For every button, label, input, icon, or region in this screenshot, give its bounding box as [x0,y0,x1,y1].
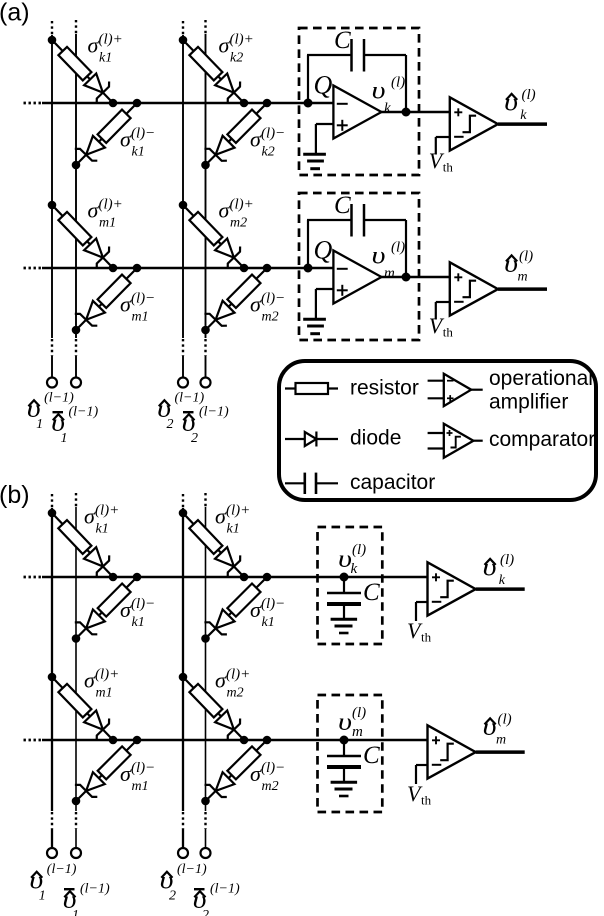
junction dot at bottom of a k1- [72,161,81,170]
wire column a col v1hat dotted bottom [51,339,53,356]
svg-text:(l)+: (l)+ [226,503,250,519]
junction dot at top of a k2- [263,99,272,108]
node Q dot a row k [304,99,313,108]
svg-text:(l)+: (l)+ [99,197,123,213]
wire a k2+ branch [183,40,244,103]
diode b k1+ g2 [215,547,240,577]
svg-text:(l)−: (l)− [131,126,155,142]
junction dot at bottom of a k1+ [109,99,118,108]
svg-text:resistor: resistor [350,377,419,400]
dashed box capacitor b row m [318,695,383,812]
capacitor C feedback a row k [352,39,365,72]
svg-text:m1: m1 [132,310,149,325]
wire op-amp + input to ground a row k [316,124,334,153]
section label (a) [0,0,30,27]
wire feedback right vertical a row m [405,220,407,277]
wire column a col v2bar dotted top [204,20,206,34]
legend label operational amplifier [489,367,593,414]
svg-text:(l)+: (l)+ [95,503,119,519]
wire feedback top right a row k [364,54,406,56]
wire a m2+ branch [183,205,244,268]
label C b row m [363,742,380,769]
junction dot at top of b m2+ [179,673,188,682]
wire column a col v1bar dotted top [75,20,77,34]
svg-text:k: k [499,573,506,588]
junction dot at bottom of b m1- [72,797,81,806]
svg-text:C: C [334,192,351,219]
junction dot at top of a k2+ [179,36,188,45]
svg-text:th: th [421,630,432,645]
svg-text:(l)−: (l)− [261,760,285,776]
svg-text:m: m [352,724,363,740]
node Q dot a row m [304,264,313,273]
junction dot at top of b m1+ [48,673,57,682]
wire column b col v1hat dotted top [51,494,53,508]
wire node to capacitor b row k [343,577,345,593]
label v_m^(l) b row m [338,705,366,740]
svg-text:(l−1): (l−1) [210,882,240,897]
label sigma_k1^- for a k1- [120,126,155,160]
resistor a m2+ [189,212,222,246]
svg-text:(l−1): (l−1) [175,391,205,406]
svg-text:th: th [421,793,432,808]
wire node to capacitor b row m [343,740,345,756]
wire b k1+ branch [52,513,113,577]
legend label diode [350,427,401,450]
diode b m2- [205,772,235,797]
resistor a k2+ [189,47,222,81]
resistor b m1+ [58,684,91,718]
wire column a col v1bar [75,34,77,338]
svg-text:diode: diode [350,427,401,450]
svg-text:(l)−: (l)− [261,596,285,612]
junction dot at top of b k1- g2 [263,573,272,582]
label C a row m [334,192,351,219]
label vhat_m^(l) output b row m [483,711,512,747]
svg-text:k2: k2 [262,145,275,160]
wire row b row m dotted left [24,739,43,742]
wire comparator output b row m [476,750,525,754]
label sigma_k2^- for a k2- [250,126,285,160]
wire column b col v1bar dotted top [75,493,77,507]
label sigma_k1^+ for b k1+ g2 [215,503,250,537]
svg-text:amplifier: amplifier [489,391,568,414]
svg-text:C: C [363,742,380,769]
svg-text:(l−1): (l−1) [80,882,110,897]
wire feedback left vertical a row k [307,55,309,103]
junction dot at top of a m2+ [179,201,188,210]
wire row a row k [42,102,333,105]
svg-text:m2: m2 [230,216,247,231]
op-amp U a row m [333,251,381,304]
wire column a col v1bar stub [75,356,77,378]
svg-text:k2: k2 [230,51,243,66]
resistor b k1- g1 [98,584,131,617]
wire column b col v2bar [205,507,207,811]
wire column a col v2hat [182,35,184,338]
comparator b row m [428,725,476,778]
terminal circle b col v2bar [201,848,211,858]
dashed box capacitor b row k [318,527,383,644]
wire column b col v1hat stub [51,829,53,848]
resistor b m2+ [189,684,222,718]
svg-text:(l−1): (l−1) [69,405,99,420]
svg-text:k1: k1 [99,51,112,66]
junction dot at top of b m2- [263,736,272,745]
label Q a row k [314,71,333,100]
svg-text:(l)−: (l)− [261,126,285,142]
wire column a col v2bar dotted bottom [204,339,206,356]
svg-text:Q: Q [314,236,333,265]
capacitor C b row m [327,756,361,767]
svg-text:operational: operational [489,367,593,390]
wire column b col v1bar dotted bottom [75,812,77,829]
resistor a k1+ [58,47,91,81]
label C b row k [363,579,380,606]
op-amp U a row k [333,86,381,139]
wire op-amp output a row m [382,276,450,278]
diode b k1- g1 [75,610,105,635]
label sigma_k2^+ for a k2+ [219,32,254,66]
ground b row m capacitor [331,782,358,796]
junction dot at top of b k1+ [48,509,57,518]
svg-text:k1: k1 [132,145,145,160]
resistor b k1+ [58,520,91,554]
terminal circle a col v1bar [71,378,81,388]
diode b k1- g2 [204,610,234,635]
wire column a col v1bar dotted bottom [75,339,77,356]
label sigma_m1^- for b m1- [120,760,155,794]
wire b k1- g2 branch [206,577,268,639]
svg-text:(l)+: (l)+ [99,32,123,48]
junction dot at bottom of a m1+ [109,264,118,273]
wire feedback right vertical a row k [405,55,407,112]
junction dot at bottom of b k1- g1 [72,634,81,643]
wire capacitor to ground b row k [343,604,345,620]
wire column a col v2bar stub [205,356,207,378]
wire b m2- branch [206,740,268,801]
label sigma_m2^- for b m2- [250,760,285,794]
diode a m2+ [215,239,240,269]
legend diode symbol [285,432,338,447]
junction dot at bottom of a m2+ [240,264,249,273]
label v_k^(l) a row k [372,75,406,117]
wire row b row k [42,576,428,579]
svg-text:(l)−: (l)− [131,596,155,612]
svg-text:(l−1): (l−1) [199,405,229,420]
junction dot at bottom of b m2- [201,797,210,806]
junction dot at top of a k1+ [48,36,57,45]
svg-text:(l)+: (l)+ [230,32,254,48]
svg-text:m: m [518,269,528,284]
wire feedback left vertical a row m [307,220,309,268]
legend label comparator [489,428,595,451]
resistor b k1- g2 [227,584,260,617]
terminal circle a col v2bar [201,378,211,388]
wire column b col v2hat stub [182,829,184,848]
diode a k2- [204,136,234,161]
wire row b row k dotted left [24,576,43,579]
terminal circle b col v2hat [178,848,188,858]
wire comparator output a row m [498,287,547,291]
svg-text:comparator: comparator [489,428,595,451]
label sigma_m2^- for a m2- [250,291,285,325]
wire b k1- g1 branch [76,577,137,639]
label vbar_2^(l-1) input b [193,882,240,916]
wire a k2- branch [206,103,268,165]
ground a row m integrator [303,319,326,334]
label sigma_m2^+ for a m2+ [219,197,254,231]
label vbar_1^(l-1) input a [51,405,98,447]
resistor a k2- [227,110,260,143]
junction dot at bottom of b m1+ [109,736,118,745]
svg-text:(l−1): (l−1) [177,862,207,877]
wire column b col v2bar stub [205,829,207,848]
junction dot at bottom of b k1- g2 [201,634,210,643]
svg-text:(l): (l) [498,711,512,727]
svg-text:(l−1): (l−1) [47,862,77,877]
label sigma_k1^- for b k1- g2 [250,596,285,630]
wire b m2+ branch [183,677,244,740]
label V_th a row k [429,148,454,175]
svg-text:k1: k1 [227,522,240,537]
svg-text:k1: k1 [132,615,145,630]
wire capacitor to ground b row m [343,767,345,783]
label vhat_k^(l) output b row k [483,552,515,588]
junction dot at top of b k1+ g2 [179,509,188,518]
label sigma_k1^+ for b k1+ [84,503,119,537]
svg-text:(l): (l) [352,542,366,558]
node dot v_k b row k [340,573,349,582]
svg-text:C: C [334,27,351,54]
output node dot a row k [402,108,411,117]
label C a row k [334,27,351,54]
svg-text:k1: k1 [96,522,109,537]
resistor a m1+ [58,212,91,246]
diode a m1- [75,301,105,326]
svg-text:m1: m1 [132,779,149,794]
resistor a k1- [98,110,131,143]
wire op-amp + input to ground a row m [316,289,334,318]
svg-text:C: C [363,579,380,606]
svg-text:(l): (l) [391,75,405,91]
junction dot at bottom of a k2- [201,161,210,170]
wire V_th input b row k [416,602,428,621]
label vhat_m^(l) output a row m [504,248,533,284]
junction dot at top of b m1- [133,736,142,745]
svg-text:k: k [520,108,527,123]
dashed box integrator a row m [299,193,419,340]
junction dot at bottom of b k1+ g2 [240,573,249,582]
diode b m2+ [215,711,240,741]
diode b m1+ [84,711,109,741]
svg-text:1: 1 [39,889,46,904]
svg-text:(a): (a) [0,0,30,27]
svg-text:m2: m2 [227,686,244,701]
svg-text:m2: m2 [262,310,279,325]
legend resistor symbol [285,383,338,394]
diode a k1- [75,136,105,161]
wire column a col v2hat stub [182,356,184,378]
label V_th a row m [429,313,454,340]
resistor b m1- [98,746,131,779]
resistor b k1+ g2 [189,520,222,554]
wire column b col v2bar dotted bottom [204,812,206,829]
label vbar_1^(l-1) input b [63,882,110,916]
comparator a row k [450,97,498,150]
junction dot at top of a m1+ [48,201,57,210]
legend label capacitor [350,471,435,494]
label V_th b row k [407,618,432,645]
svg-text:1: 1 [72,908,79,916]
svg-text:(l)+: (l)+ [230,197,254,213]
svg-text:(l): (l) [391,240,405,256]
svg-text:m1: m1 [96,686,113,701]
junction dot at top of b k1- g1 [133,573,142,582]
wire column a col v2hat dotted bottom [182,339,184,356]
section label (b) [0,481,30,509]
svg-text:(l): (l) [500,552,514,568]
wire column a col v1hat stub [51,356,53,378]
wire a k1+ branch [52,40,113,103]
svg-text:k1: k1 [262,615,275,630]
svg-text:1: 1 [36,417,43,432]
svg-text:(l)−: (l)− [261,291,285,307]
svg-text:th: th [443,325,454,340]
junction dot at bottom of b m2+ [240,736,249,745]
wire column a col v2hat dotted top [182,21,184,35]
label vhat_2^(l-1) input b [160,862,207,904]
wire V_th input b row m [416,765,428,784]
svg-text:(b): (b) [0,481,30,509]
diode b k1+ [84,547,109,577]
capacitor C feedback a row m [352,204,365,237]
label vhat_1^(l-1) input a [27,391,74,433]
svg-text:2: 2 [167,417,174,432]
svg-text:(l−1): (l−1) [44,391,74,406]
svg-text:k: k [351,561,358,577]
wire column a col v1hat dotted top [51,21,53,35]
svg-text:(l): (l) [519,248,533,264]
legend op-amp symbol [428,374,483,406]
wire comparator output a row k [498,122,547,126]
junction dot at top of a m1- [133,264,142,273]
wire row a row m dotted left [24,267,43,270]
wire column b col v2hat [182,508,184,811]
output node dot a row m [402,273,411,282]
capacitor C b row k [327,593,361,604]
svg-text:2: 2 [169,889,176,904]
svg-text:Q: Q [314,71,333,100]
wire column b col v2hat dotted bottom [182,812,184,829]
wire feedback top left a row k [307,54,352,56]
resistor a m2- [227,275,260,308]
label v_k^(l) b row k [338,542,366,577]
wire column b col v1bar stub [75,829,77,848]
wire a m2- branch [206,268,268,330]
label sigma_m1^+ for a m1+ [88,197,123,231]
legend box [279,361,596,500]
svg-text:th: th [443,160,454,175]
terminal circle a col v2hat [178,378,188,388]
dashed box integrator a row k [299,28,419,175]
wire column b col v1bar [75,507,77,811]
ground b row k capacitor [331,619,358,633]
label sigma_k1^+ for a k1+ [88,32,123,66]
legend label resistor [350,377,419,400]
terminal circle b col v1bar [71,848,81,858]
legend capacitor symbol [285,473,338,494]
label sigma_m1^+ for b m1+ [84,667,119,701]
wire comparator output b row k [476,587,525,591]
wire V_th input a row k [436,137,450,155]
label vbar_2^(l-1) input a [182,405,229,447]
wire a m1- branch [76,268,137,330]
junction dot at bottom of a m2- [201,326,210,335]
diode b m1- [75,772,105,797]
svg-text:k: k [384,101,391,117]
diode a m2- [204,301,234,326]
svg-text:m2: m2 [262,779,279,794]
label Q a row m [314,236,333,265]
wire column a col v2bar [205,34,207,338]
svg-text:2: 2 [202,908,209,916]
diode a m1+ [84,239,109,269]
svg-text:capacitor: capacitor [350,471,435,494]
wire row a row m [42,267,333,270]
svg-text:(l): (l) [352,705,366,721]
junction dot at top of a k1- [133,99,142,108]
comparator a row m [450,262,498,315]
svg-text:m: m [384,266,395,282]
svg-text:(l)−: (l)− [131,760,155,776]
legend comparator symbol [428,424,483,458]
label vhat_1^(l-1) input b [29,862,76,904]
svg-text:(l)+: (l)+ [95,667,119,683]
terminal circle b col v1hat [47,848,57,858]
svg-text:υ: υ [338,708,352,736]
svg-text:m: m [496,732,506,747]
label sigma_k1^- for b k1- g1 [120,596,155,630]
svg-text:(l)−: (l)− [131,291,155,307]
svg-text:m1: m1 [99,216,116,231]
junction dot at bottom of a k2+ [240,99,249,108]
wire row a row k dotted left [24,102,43,105]
wire a m1+ branch [52,205,113,268]
wire op-amp output a row k [382,111,450,113]
comparator b row k [428,562,476,615]
wire feedback top left a row m [307,219,352,221]
junction dot at bottom of b k1+ [109,573,118,582]
wire feedback top right a row m [364,219,406,221]
label v_m^(l) a row m [372,240,406,282]
node dot v_m b row m [340,736,349,745]
wire row b row m [42,739,428,742]
label sigma_m1^- for a m1- [120,291,155,325]
wire column b col v2hat dotted top [182,494,184,508]
label sigma_m2^+ for b m2+ [215,667,250,701]
wire a k1- branch [76,103,137,165]
svg-text:(l)+: (l)+ [226,667,250,683]
svg-text:2: 2 [191,431,198,446]
diode a k1+ [84,74,109,104]
svg-text:(l): (l) [522,87,536,103]
terminal circle a col v1hat [47,378,57,388]
wire column b col v1hat dotted bottom [51,812,53,829]
resistor b m2- [227,746,260,779]
resistor a m1- [98,275,131,308]
wire column b col v2bar dotted top [204,493,206,507]
